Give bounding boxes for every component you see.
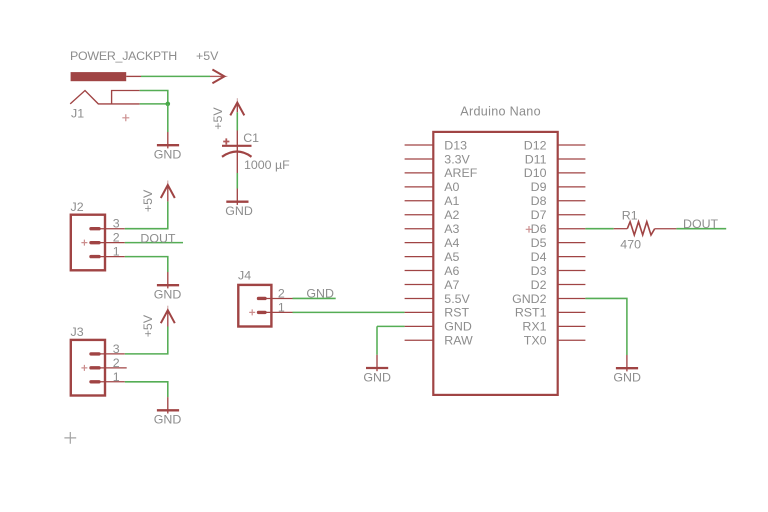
svg-text:3: 3 [113, 217, 120, 231]
svg-text:A3: A3 [444, 222, 459, 236]
svg-text:TX0: TX0 [524, 334, 547, 348]
svg-text:D13: D13 [444, 138, 467, 152]
svg-text:GND: GND [225, 204, 253, 218]
svg-text:J1: J1 [71, 107, 84, 121]
svg-text:GND: GND [363, 370, 391, 384]
svg-text:POWER_JACKPTH: POWER_JACKPTH [70, 49, 177, 63]
svg-text:J3: J3 [71, 325, 84, 339]
svg-text:RST1: RST1 [515, 306, 547, 320]
svg-text:1000 µF: 1000 µF [244, 158, 290, 172]
svg-text:D4: D4 [531, 250, 547, 264]
svg-text:2: 2 [113, 231, 120, 245]
svg-text:R1: R1 [622, 209, 638, 223]
svg-text:D2: D2 [531, 278, 547, 292]
svg-text:A5: A5 [444, 250, 459, 264]
svg-text:D11: D11 [525, 152, 547, 166]
svg-text:1: 1 [113, 370, 120, 384]
svg-text:D5: D5 [531, 236, 547, 250]
svg-text:A2: A2 [444, 208, 459, 222]
svg-text:RX1: RX1 [522, 320, 546, 334]
svg-text:D6: D6 [531, 222, 547, 236]
svg-text:D9: D9 [531, 180, 547, 194]
svg-text:D7: D7 [531, 208, 547, 222]
svg-text:GND2: GND2 [512, 292, 547, 306]
svg-text:C1: C1 [243, 131, 259, 145]
svg-text:A0: A0 [444, 180, 459, 194]
svg-text:+5V: +5V [196, 49, 219, 63]
svg-text:GND: GND [613, 371, 641, 385]
svg-text:1: 1 [113, 245, 120, 259]
svg-text:GND: GND [154, 288, 182, 302]
svg-text:+5V: +5V [141, 189, 155, 212]
svg-text:AREF: AREF [444, 166, 477, 180]
svg-text:+5V: +5V [211, 107, 225, 130]
svg-text:DOUT: DOUT [140, 231, 176, 245]
svg-text:GND: GND [154, 148, 182, 162]
svg-text:A7: A7 [444, 278, 459, 292]
svg-text:A4: A4 [444, 236, 459, 250]
svg-text:RST: RST [444, 306, 469, 320]
svg-text:GND: GND [306, 287, 334, 301]
svg-text:GND: GND [154, 413, 182, 427]
svg-text:D8: D8 [531, 194, 547, 208]
svg-text:Arduino Nano: Arduino Nano [460, 105, 541, 119]
svg-text:470: 470 [620, 237, 641, 251]
svg-text:A1: A1 [444, 194, 459, 208]
svg-text:J2: J2 [71, 200, 84, 214]
svg-text:D3: D3 [531, 264, 547, 278]
svg-text:GND: GND [444, 320, 472, 334]
svg-text:5.5V: 5.5V [444, 292, 470, 306]
svg-text:D12: D12 [524, 138, 547, 152]
svg-text:D10: D10 [524, 166, 547, 180]
svg-text:A6: A6 [444, 264, 459, 278]
svg-text:RAW: RAW [444, 334, 473, 348]
svg-text:DOUT: DOUT [683, 217, 719, 231]
svg-text:2: 2 [278, 287, 285, 301]
svg-text:J4: J4 [238, 269, 251, 283]
svg-text:1: 1 [278, 300, 285, 314]
svg-text:3: 3 [113, 342, 120, 356]
svg-text:2: 2 [113, 356, 120, 370]
svg-text:+5V: +5V [141, 314, 155, 337]
svg-text:3.3V: 3.3V [444, 152, 470, 166]
